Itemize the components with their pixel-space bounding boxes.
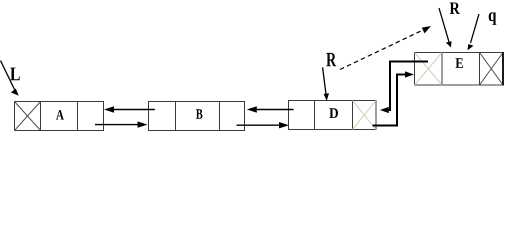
pointer arrow q to E bbox=[468, 14, 480, 50]
node D box bbox=[289, 101, 377, 130]
label R (top right) bbox=[450, 3, 460, 14]
wire elbow D to E (next pointer, right-pointing head) bbox=[373, 71, 415, 125]
dashed arrow toward R (up-right) bbox=[340, 26, 431, 70]
wire elbow E to D (prev pointer, left-pointing head) bbox=[380, 62, 428, 114]
node B label bbox=[196, 109, 203, 118]
label R (middle) bbox=[326, 53, 336, 66]
node E right border (thick) bbox=[502, 52, 504, 86]
label L bbox=[10, 68, 20, 81]
node D null X (light) bbox=[353, 101, 377, 130]
label q bbox=[489, 12, 497, 25]
wire arrow B to D (bottom, right-pointing) bbox=[237, 122, 290, 128]
node E next X bbox=[480, 53, 504, 86]
node A box bbox=[15, 102, 104, 131]
node D label bbox=[329, 108, 338, 118]
wire arrow D to B (top, left-pointing) bbox=[247, 106, 294, 112]
node E label bbox=[456, 58, 464, 68]
node A null X bbox=[15, 102, 41, 131]
pointer arrow R to E bbox=[439, 8, 452, 47]
node E box bbox=[415, 53, 504, 86]
wire arrow A to B (bottom, right-pointing) bbox=[95, 121, 148, 127]
pointer arrow L bbox=[1, 61, 19, 96]
node A label bbox=[56, 110, 64, 119]
node E prev X (light) bbox=[415, 53, 443, 86]
wire arrow B to A (top, left-pointing) bbox=[104, 106, 155, 112]
pointer arrow R to D bbox=[323, 67, 329, 101]
node B box bbox=[149, 102, 245, 131]
